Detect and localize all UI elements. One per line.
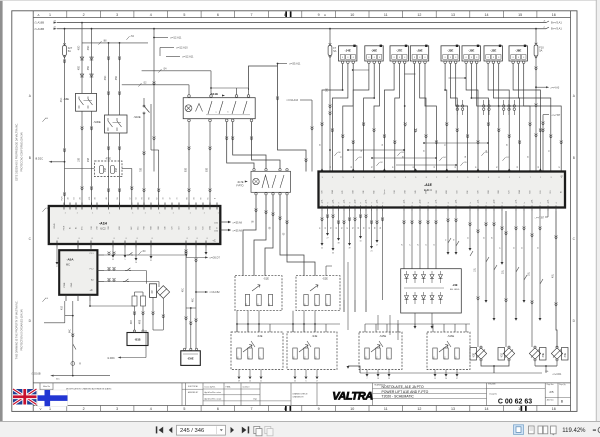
svg-text:EH. LEDG: EH. LEDG (450, 289, 460, 291)
svg-text:162: 162 (387, 357, 389, 360)
svg-text:□=+4.A3: □=+4.A3 (550, 86, 560, 89)
svg-text:-A1H: -A1H (99, 222, 107, 226)
valve Y1E (498, 348, 505, 361)
svg-text:/8.D2C: /8.D2C (35, 157, 43, 161)
svg-text:33: 33 (332, 253, 334, 255)
svg-text:-J8E: -J8E (515, 49, 521, 53)
svg-text:8: 8 (523, 57, 524, 59)
svg-text:2: 2 (83, 407, 85, 411)
diode module (157, 286, 170, 299)
svg-text:-S6E: -S6E (63, 97, 69, 101)
svg-text:02-03-13: 02-03-13 (243, 386, 250, 388)
svg-text:9: 9 (395, 177, 396, 179)
svg-text:4: 4 (447, 177, 448, 179)
resistor R1 (132, 296, 137, 306)
wire mid pair (447, 211, 449, 252)
sensor B1B (127, 333, 148, 346)
svg-text:62: 62 (156, 198, 158, 200)
svg-text:2: 2 (382, 203, 383, 205)
svg-text:GND: GND (425, 189, 427, 194)
terminals S17E top (253, 169, 255, 171)
wire module interlinks (353, 69, 369, 71)
wire loose verticals (347, 262, 349, 330)
wire row P1.2 (104, 270, 146, 272)
wire feeder x312 (311, 100, 313, 172)
wire J4E bottom exits (414, 313, 416, 326)
svg-text:-EHE: -EHE (187, 357, 193, 361)
svg-text:-J5E: -J5E (468, 49, 474, 53)
svg-text:8: 8 (498, 57, 499, 59)
svg-text:33: 33 (112, 259, 114, 261)
svg-text:8: 8 (58, 238, 59, 240)
sensor box S15E (359, 332, 402, 370)
svg-text:6: 6 (217, 407, 219, 411)
svg-text:8: 8 (471, 57, 472, 59)
svg-text:5: 5 (338, 203, 339, 205)
svg-text:64: 64 (353, 227, 355, 229)
svg-text:16: 16 (552, 13, 556, 17)
wire A1H to EHE (185, 248, 187, 349)
svg-text:5: 5 (125, 259, 126, 261)
svg-text:16: 16 (552, 407, 556, 411)
svg-text:ESTE DESENHO E PROPRIEDADE DA: ESTE DESENHO E PROPRIEDADE DA VALTRA INC… (16, 123, 19, 181)
svg-text:162: 162 (455, 357, 457, 360)
svg-text:1: 1 (77, 213, 78, 215)
svg-text:18: 18 (377, 378, 379, 380)
svg-text:8: 8 (499, 177, 500, 179)
wire S30E feeders (82, 42, 148, 44)
svg-text:2: 2 (327, 203, 328, 205)
svg-text:1: 1 (49, 13, 51, 17)
svg-text:85: 85 (455, 166, 457, 168)
svg-text:8: 8 (426, 177, 427, 179)
svg-text:□=/26.D7: □=/26.D7 (210, 257, 221, 260)
svg-text:B2: B2 (561, 191, 563, 193)
svg-text:7: 7 (367, 378, 368, 380)
svg-text:4SL: 4SL (552, 273, 554, 278)
svg-text:37: 37 (456, 378, 458, 380)
svg-text:168: 168 (326, 304, 328, 307)
svg-text:5: 5 (343, 177, 344, 179)
wire S6E feeders (81, 22, 83, 24)
resistor R2 (141, 296, 146, 306)
svg-text:App'd/Lue/Rev. action: App'd/Lue/Rev. action (205, 391, 221, 394)
terminals J2E (487, 61, 490, 64)
toolbar prev-page button (169, 427, 173, 433)
valve Y4E (540, 348, 547, 361)
svg-text:14: 14 (485, 13, 489, 17)
top window edge line (0, 0, 600, 2)
svg-text:B: B (573, 156, 575, 160)
svg-text:2/5: 2/5 (549, 390, 554, 394)
svg-text:T2020 - SCHEMATIC: T2020 - SCHEMATIC (382, 395, 415, 399)
svg-text:11: 11 (384, 13, 388, 17)
svg-text:-J4E: -J4E (345, 49, 351, 53)
flag United Kingdom (13, 389, 37, 405)
svg-text:6: 6 (448, 203, 449, 205)
svg-text:8: 8 (399, 57, 400, 59)
fuse block F2E (95, 161, 123, 177)
terminals J4E (341, 61, 344, 64)
svg-text:5A: 5A (539, 49, 542, 53)
svg-text:45D: 45D (78, 66, 80, 71)
svg-text:67: 67 (347, 227, 349, 229)
toolbar view icon highlighted (514, 425, 524, 435)
A5A top pins (77, 244, 79, 250)
toolbar last-page button (242, 427, 247, 434)
svg-text:Muta No: Muta No (43, 385, 50, 388)
wire feeder x277 (249, 66, 278, 90)
svg-text:55: 55 (294, 380, 296, 382)
svg-text:65: 65 (336, 227, 338, 229)
svg-text:81: 81 (496, 166, 498, 168)
svg-text:-J9E: -J9E (416, 49, 422, 53)
svg-text:67: 67 (320, 227, 322, 229)
svg-text:V: V (79, 362, 81, 366)
svg-text:3SL: 3SL (376, 199, 378, 202)
svg-text:17: 17 (316, 380, 318, 382)
svg-text:160: 160 (433, 357, 435, 360)
svg-text:PWR: PWR (62, 196, 64, 201)
svg-text:L7: L7 (410, 244, 412, 246)
svg-text:2: 2 (83, 13, 85, 17)
svg-text:21: 21 (260, 380, 262, 382)
svg-text:4SD: 4SD (78, 45, 80, 50)
wire S15E feed from J4E (414, 324, 416, 326)
svg-text:21: 21 (370, 251, 372, 253)
svg-text:11: 11 (384, 407, 388, 411)
terminals S11E top (188, 95, 191, 98)
svg-text:8: 8 (513, 57, 514, 59)
wire S17E bottom drops (243, 195, 256, 276)
diode box J4E (401, 269, 462, 313)
wire stub =/26.D7 (185, 255, 187, 258)
wire valve feeds (477, 211, 479, 347)
title block approval cells (182, 388, 203, 390)
toolbar zoom minus button (593, 429, 596, 430)
svg-text:1SB: 1SB (78, 157, 80, 162)
svg-text:+C: +C (212, 240, 215, 243)
svg-text:-S4E: -S4E (312, 335, 318, 338)
fold marks bottom column 8 (285, 406, 287, 411)
wire X9 down (152, 297, 154, 330)
svg-text:GND: GND (332, 189, 334, 194)
svg-text:76: 76 (454, 239, 456, 241)
svg-text:8: 8 (488, 57, 489, 59)
svg-text:54: 54 (136, 198, 138, 200)
svg-text:□=+3.D1: □=+3.D1 (552, 373, 562, 376)
terminals J3E (444, 61, 447, 64)
svg-text:13: 13 (451, 13, 455, 17)
svg-text:245 / 346: 245 / 346 (180, 428, 204, 434)
svg-text:66: 66 (201, 198, 203, 200)
wire cross links mid band (348, 149, 404, 151)
svg-text:-Y4E: -Y4E (543, 352, 545, 358)
svg-text:4: 4 (524, 203, 525, 205)
svg-text:-S3E: -S3E (257, 335, 263, 338)
svg-text:164: 164 (257, 304, 259, 307)
wire right cluster A (469, 211, 471, 248)
svg-text:8: 8 (414, 57, 415, 59)
toolbar copy icon (254, 426, 260, 433)
svg-text:8: 8 (126, 238, 127, 240)
wire stub =/12.A11 second (166, 56, 180, 58)
wire A5A pin3 down (89, 301, 91, 306)
svg-text:9: 9 (322, 177, 323, 179)
wire module drop chevrons (321, 123, 324, 126)
svg-text:8: 8 (207, 238, 208, 240)
title block outline (33, 382, 570, 384)
svg-text:3: 3 (116, 407, 118, 411)
terminals S11E bottom (188, 119, 191, 122)
svg-text:4SD: 4SD (88, 45, 90, 50)
svg-text:83: 83 (351, 166, 353, 168)
svg-text:1: 1 (190, 213, 191, 215)
svg-text:38: 38 (337, 243, 339, 245)
svg-text:□=/35.A8: □=/35.A8 (233, 230, 243, 233)
svg-text:8: 8 (353, 57, 354, 59)
footer strip line (33, 405, 570, 407)
svg-text:6: 6 (556, 203, 557, 205)
A1H bottom pins (57, 241, 206, 248)
svg-text:59: 59 (238, 380, 240, 382)
sensor box S3E (231, 332, 283, 370)
svg-text:L6: L6 (418, 244, 420, 246)
svg-text:31: 31 (150, 260, 152, 262)
svg-text:64C: 64C (56, 378, 60, 380)
svg-text:L5: L5 (426, 244, 428, 246)
svg-text:161: 161 (444, 357, 446, 360)
fuse F27 (64, 28, 66, 30)
svg-text:B1: B1 (69, 227, 71, 229)
wire S10E to A1H pins (143, 120, 145, 206)
wire S11E pin feeders (188, 85, 190, 95)
svg-text:63: 63 (325, 227, 327, 229)
svg-text:60: 60 (331, 227, 333, 229)
svg-text:6: 6 (502, 203, 503, 205)
fuse F10 (535, 28, 537, 30)
svg-text:41B: 41B (61, 305, 63, 310)
wire J4E top feeds (403, 211, 405, 269)
svg-text:□=+7.B7: □=+7.B7 (535, 217, 545, 220)
svg-text:45C: 45C (182, 288, 184, 293)
svg-text:8: 8 (428, 203, 429, 205)
svg-text:85: 85 (538, 166, 540, 168)
svg-text:8: 8 (425, 57, 426, 59)
wire mid feeder x154 (153, 31, 155, 172)
svg-text:9: 9 (318, 13, 320, 17)
svg-text:8: 8 (197, 238, 198, 240)
wire F27 to A1H (64, 162, 66, 206)
svg-text:3: 3 (332, 177, 333, 179)
svg-text:2: 2 (436, 177, 437, 179)
svg-text:8: 8 (394, 57, 395, 59)
switch S6E (76, 93, 97, 111)
svg-text:22: 22 (321, 248, 323, 250)
svg-text:1: 1 (65, 213, 66, 215)
svg-text:-J7E: -J7E (396, 49, 402, 53)
terminals J7E (393, 61, 396, 64)
terminals J9E (413, 61, 416, 64)
svg-text:27: 27 (376, 245, 378, 247)
A1E bottom pins (322, 206, 556, 212)
svg-text:5A: 5A (68, 49, 71, 53)
header strip line (33, 17, 570, 19)
svg-text:49: 49 (348, 248, 350, 250)
terminals J8E (512, 61, 515, 64)
connector X9 (150, 284, 157, 298)
flag Finland (38, 390, 68, 406)
wire A5A pin2 down (72, 301, 74, 376)
wire stub =/35.A11 (278, 63, 288, 65)
svg-text:-J4E: -J4E (452, 283, 458, 287)
svg-text:VALTRA: VALTRA (332, 391, 373, 403)
svg-text:87: 87 (392, 166, 394, 168)
svg-text:9: 9 (318, 407, 320, 411)
svg-text:8: 8 (493, 57, 494, 59)
control unit A1H (49, 206, 221, 244)
frame right margin line (570, 11, 572, 412)
svg-text:8: 8 (114, 238, 115, 240)
svg-text:-Y3E: -Y3E (565, 352, 567, 358)
svg-text:3: 3 (551, 177, 552, 179)
right margin strip (597, 0, 600, 421)
extra tick labels left column (42, 118, 45, 122)
terminals S17E bottom (255, 193, 257, 195)
relay J9E (410, 46, 428, 61)
wire S6E to A1H pins (81, 111, 83, 206)
svg-text:161: 161 (376, 357, 378, 360)
sensor box S2E (296, 276, 340, 311)
svg-text:GND: GND (54, 223, 56, 228)
bus right end labels B+=/3.A1 (546, 21, 549, 23)
svg-text:5XL: 5XL (477, 199, 479, 202)
svg-text:160: 160 (293, 357, 295, 360)
svg-text:20: 20 (538, 247, 540, 249)
extra tick labels above A1E (334, 152, 337, 156)
svg-text:5XL: 5XL (403, 199, 405, 202)
svg-text:App'd/Lue/Rev. assign: App'd/Lue/Rev. assign (205, 397, 222, 400)
svg-text:162: 162 (259, 357, 261, 360)
wire bus B2 /1.A16B (57, 22, 546, 24)
svg-text:-F2E: -F2E (105, 157, 111, 161)
svg-text:163: 163 (246, 304, 248, 307)
wire stub =/34.A16 (300, 99, 312, 101)
svg-text:26: 26 (445, 378, 447, 380)
svg-text:85: 85 (372, 166, 374, 168)
svg-text:29: 29 (388, 378, 390, 380)
svg-text:B: B (29, 156, 31, 160)
svg-text:10: 10 (350, 13, 354, 17)
fuse F7 (329, 28, 331, 30)
svg-text:/1.D6C: /1.D6C (107, 357, 115, 360)
svg-text:-A1E: -A1E (424, 183, 432, 187)
svg-text:F-PTO: F-PTO (236, 185, 243, 188)
wire stub =+7.B7 (547, 211, 549, 217)
svg-text:10: 10 (359, 241, 361, 243)
svg-text:+C: +C (89, 289, 92, 292)
toolbar next-page button (231, 427, 235, 433)
relay J7E (390, 46, 408, 61)
wire S3E pins (236, 324, 238, 332)
svg-text:3: 3 (405, 177, 406, 179)
svg-text:GND: GND (209, 225, 211, 230)
svg-text:1: 1 (109, 213, 110, 215)
svg-text:/1.A16B: /1.A16B (35, 21, 45, 25)
svg-text:167: 167 (315, 304, 317, 307)
wire /1.D16B (54, 375, 110, 377)
sensor EHE (181, 351, 201, 366)
svg-text:160: 160 (365, 357, 367, 360)
svg-text:1: 1 (540, 177, 541, 179)
svg-text:4: 4 (470, 203, 471, 205)
svg-text:L4: L4 (434, 244, 436, 246)
svg-text:1: 1 (218, 213, 219, 215)
svg-text:36: 36 (382, 144, 384, 146)
toolbar background (0, 421, 600, 437)
svg-text:87: 87 (476, 166, 478, 168)
svg-text:CHANGED BY: CHANGED BY (293, 396, 305, 399)
node =/12.B2 (195, 291, 197, 293)
wire feeder x543 (542, 115, 544, 172)
svg-text:30E: 30E (326, 87, 328, 92)
svg-text:-J6E: -J6E (371, 49, 377, 53)
svg-text:-S16E: -S16E (447, 335, 454, 338)
svg-text:PROTECCAO CONFORME (DIN 34): PROTECCAO CONFORME (DIN 34) (21, 132, 24, 172)
relay J6E (365, 46, 383, 61)
svg-text:8: 8 (518, 57, 519, 59)
terminals J6E (368, 61, 371, 64)
wire A5A pin1 down (64, 301, 66, 323)
svg-text:/1.A16B: /1.A16B (35, 27, 45, 31)
svg-text:32: 32 (444, 144, 446, 146)
wire EHE middle pin (190, 308, 192, 349)
svg-text:7: 7 (371, 203, 372, 205)
svg-text:1SL: 1SL (435, 199, 437, 202)
svg-text:GND: GND (71, 282, 73, 287)
svg-text:1SL: 1SL (474, 267, 476, 272)
svg-text:8: 8 (379, 57, 380, 59)
control unit A5A (59, 250, 97, 295)
A5A right pins (97, 254, 104, 256)
svg-text:1: 1 (363, 177, 364, 179)
wire /8.D2C stub (52, 161, 65, 163)
toolbar page number box (177, 425, 226, 435)
toolbar first-page button (156, 426, 158, 433)
svg-text:L8: L8 (402, 244, 404, 246)
svg-text:5: 5 (183, 407, 185, 411)
title block cell Mod No (40, 388, 53, 390)
svg-text:PWR: PWR (64, 282, 66, 287)
frame left margin line (32, 11, 34, 412)
svg-text:-J3E: -J3E (447, 49, 453, 53)
svg-text:GND: GND (519, 189, 521, 194)
wire stub =+4.A3 (536, 86, 546, 88)
svg-text:POWER LIFT A1E AND F-PTO: POWER LIFT A1E AND F-PTO (382, 390, 429, 394)
fold marks top column 8 (285, 11, 287, 17)
wire right cluster B (501, 211, 503, 262)
svg-text:8: 8 (404, 57, 405, 59)
toolbar view icon two page (538, 426, 543, 434)
svg-text:160: 160 (237, 357, 239, 360)
svg-text:5: 5 (415, 177, 416, 179)
wire S16E pins (432, 324, 434, 332)
svg-text:68: 68 (375, 227, 377, 229)
svg-text:-S30E: -S30E (93, 120, 101, 124)
svg-text:62: 62 (342, 227, 344, 229)
wire stub =/12.A11 (154, 37, 168, 39)
wire valve bottoms (481, 361, 509, 366)
